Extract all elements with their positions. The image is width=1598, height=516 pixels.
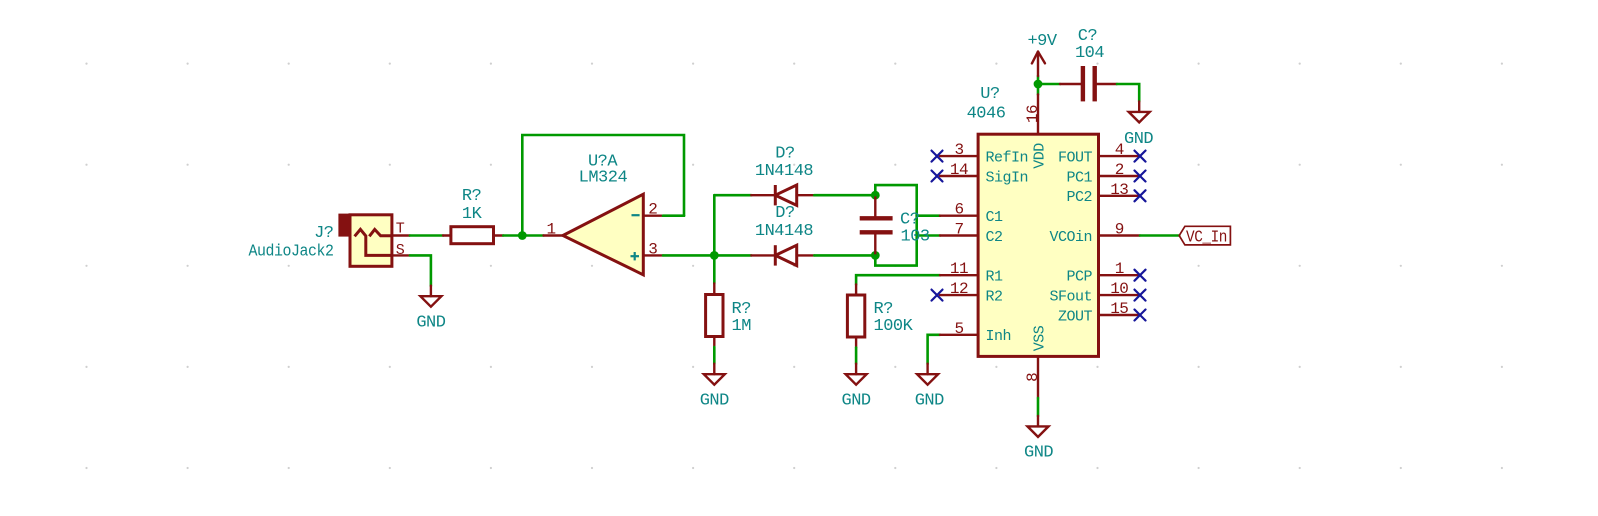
wire +9V to C104 — [1038, 83, 1060, 86]
svg-text:103: 103 — [901, 227, 930, 246]
svg-text:GND: GND — [700, 392, 729, 411]
diode D2 — [751, 245, 814, 265]
wire pin11 to R100K — [856, 275, 940, 284]
svg-text:PC1: PC1 — [1066, 169, 1092, 186]
pin 3 of U? (left) — [940, 155, 978, 157]
svg-text:12: 12 — [950, 280, 968, 298]
wire node to pin1 — [522, 234, 543, 237]
connector J? AudioJack2 body — [350, 215, 392, 266]
pin 1 of U? (right) — [1099, 274, 1141, 276]
wire pin9 to VC_In — [1140, 234, 1179, 237]
svg-text:GND: GND — [1124, 130, 1153, 149]
svg-text:2: 2 — [648, 201, 657, 219]
resistor R1 body — [451, 227, 494, 244]
svg-text:R1: R1 — [986, 269, 1004, 286]
capacitor C103 — [860, 195, 893, 255]
svg-text:11: 11 — [950, 260, 968, 278]
no-connect pin 4 — [1135, 151, 1146, 162]
wire riser to D1 — [713, 195, 716, 255]
no-connect pin 1 — [1135, 270, 1146, 281]
svg-text:1: 1 — [1115, 260, 1124, 278]
wire R1 to node — [503, 234, 522, 237]
node +9V junction — [1034, 80, 1043, 89]
svg-text:GND: GND — [915, 392, 944, 411]
svg-text:7: 7 — [954, 221, 963, 239]
svg-text:1M: 1M — [732, 317, 752, 336]
svg-text:3: 3 — [648, 240, 657, 258]
wire pin3 to node — [663, 254, 714, 257]
pin 9 of U? (right) — [1099, 234, 1141, 236]
svg-text:GND: GND — [842, 392, 871, 411]
svg-text:VCOin: VCOin — [1049, 229, 1092, 246]
pin 4 of U? (right) — [1099, 155, 1141, 157]
svg-text:T: T — [396, 221, 405, 238]
pin T of J? — [392, 234, 410, 236]
wire pin5 to GND — [928, 335, 940, 364]
pin 15 of U? (right) — [1099, 314, 1141, 316]
svg-text:3: 3 — [954, 141, 963, 159]
wire S to GND — [410, 255, 431, 285]
wire pin8 to GND — [1037, 398, 1040, 416]
op-amp plus sign — [631, 252, 640, 260]
svg-text:104: 104 — [1075, 44, 1104, 63]
svg-text:1N4148: 1N4148 — [755, 222, 814, 241]
resistor R100K — [847, 285, 864, 348]
svg-text:S: S — [396, 242, 405, 259]
op-amp minus sign — [632, 214, 640, 216]
svg-text:LM324: LM324 — [579, 169, 628, 188]
feedback wire — [522, 135, 684, 236]
wire D1 to C node — [814, 194, 875, 197]
svg-text:9: 9 — [1115, 221, 1124, 239]
svg-text:R2: R2 — [986, 288, 1003, 305]
svg-text:13: 13 — [1110, 181, 1128, 199]
svg-text:C2: C2 — [986, 229, 1003, 246]
connector J? tip contact — [369, 229, 392, 236]
wire node to R1M — [713, 255, 716, 283]
no-connect pin 3 — [932, 151, 943, 162]
pin 10 of U? (right) — [1099, 294, 1141, 296]
svg-text:GND: GND — [1024, 444, 1053, 463]
pin 7 of U? (left) — [940, 234, 978, 236]
svg-text:D?: D? — [775, 145, 794, 164]
svg-text:ZOUT: ZOUT — [1058, 308, 1093, 325]
wire node to D2 — [714, 254, 751, 257]
ground below U? — [1028, 416, 1049, 437]
node C103 bottom — [871, 251, 880, 260]
pin 1 of U?A — [544, 234, 563, 236]
pin 11 of U? (left) — [940, 274, 978, 276]
no-connect pin 10 — [1135, 290, 1146, 301]
svg-text:VC_In: VC_In — [1186, 228, 1227, 247]
ground under jack — [420, 286, 441, 307]
pin S of J? — [392, 254, 410, 256]
wire to D1 — [714, 194, 751, 197]
svg-text:U?: U? — [980, 85, 999, 104]
svg-text:D?: D? — [775, 204, 794, 223]
svg-text:PCP: PCP — [1066, 269, 1092, 286]
svg-text:4046: 4046 — [967, 105, 1006, 124]
pin 6 of U? (left) — [940, 214, 978, 216]
wire C103 loop — [875, 185, 916, 266]
global label VC_In outline — [1179, 226, 1230, 245]
wire loop to pin7 — [917, 234, 940, 237]
wire C104 to GND — [1117, 84, 1139, 101]
svg-text:R?: R? — [462, 187, 481, 206]
svg-text:SFout: SFout — [1049, 288, 1092, 305]
pin 2 of U? (right) — [1099, 175, 1141, 177]
svg-text:10: 10 — [1110, 280, 1128, 298]
svg-text:PC2: PC2 — [1066, 189, 1092, 206]
svg-text:4: 4 — [1115, 141, 1124, 159]
svg-text:8: 8 — [1024, 373, 1042, 382]
svg-text:1N4148: 1N4148 — [755, 162, 814, 181]
no-connect pin 13 — [1135, 190, 1146, 201]
pin 8 of U? (bottom) — [1037, 356, 1039, 398]
svg-text:1: 1 — [546, 221, 555, 239]
IC U? 4046 body — [978, 134, 1098, 356]
wire T to R1 — [410, 234, 443, 237]
svg-text:16: 16 — [1024, 105, 1042, 123]
svg-text:C1: C1 — [986, 209, 1004, 226]
resistor R1 leads — [443, 234, 503, 236]
connector J? sleeve contact — [355, 229, 392, 255]
svg-text:1K: 1K — [462, 205, 483, 224]
svg-text:14: 14 — [950, 161, 968, 179]
power +9V — [1032, 52, 1045, 76]
svg-text:Inh: Inh — [986, 328, 1012, 345]
no-connect pin 14 — [932, 171, 943, 182]
svg-text:FOUT: FOUT — [1058, 149, 1093, 166]
capacitor C104 — [1060, 66, 1117, 101]
wire loop to pin6 — [917, 214, 940, 217]
node at op-amp input — [518, 231, 527, 240]
pin 2 of U?A — [643, 214, 663, 216]
wire R1M to GND — [713, 347, 716, 364]
svg-text:GND: GND — [416, 314, 445, 333]
pin 5 of U? (left) — [940, 334, 978, 336]
svg-text:VDD: VDD — [1031, 143, 1048, 169]
wire R100K to GND — [855, 348, 858, 364]
svg-text:15: 15 — [1110, 300, 1128, 318]
wire +9V junction vertical — [1037, 76, 1040, 95]
svg-text:AudioJack2: AudioJack2 — [249, 242, 334, 261]
ground under Inh — [917, 364, 938, 385]
pin 14 of U? (left) — [940, 175, 978, 177]
connector J? sleeve block — [338, 214, 351, 237]
svg-text:5: 5 — [954, 320, 963, 338]
svg-text:2: 2 — [1115, 161, 1124, 179]
pin 12 of U? (left) — [940, 294, 978, 296]
svg-text:J?: J? — [314, 224, 333, 243]
op-amp U?A triangle — [563, 194, 643, 275]
wire D2 to C node — [814, 254, 875, 257]
svg-text:6: 6 — [954, 201, 963, 219]
pin 16 of U? (top) — [1037, 95, 1039, 135]
ground under R100K — [846, 364, 867, 385]
svg-text:RefIn: RefIn — [986, 149, 1029, 166]
ground right of C104 — [1129, 101, 1150, 122]
no-connect pin 12 — [932, 290, 943, 301]
ground under R1M — [704, 364, 725, 385]
svg-text:SigIn: SigIn — [986, 169, 1029, 186]
no-connect pin 2 — [1135, 171, 1146, 182]
node pin3 junction — [710, 251, 719, 260]
svg-text:100K: 100K — [874, 317, 914, 336]
node C103 top — [871, 191, 880, 200]
svg-text:VSS: VSS — [1031, 325, 1048, 351]
resistor R1M — [706, 284, 723, 348]
grid dots (decorative) — [85, 63, 1503, 470]
no-connect pin 15 — [1135, 310, 1146, 321]
diode D1 — [751, 185, 814, 205]
pin 13 of U? (right) — [1099, 195, 1141, 197]
svg-text:+9V: +9V — [1027, 32, 1057, 51]
pin 3 of U?A — [643, 254, 663, 256]
wire pin2 to feedback — [663, 214, 684, 217]
